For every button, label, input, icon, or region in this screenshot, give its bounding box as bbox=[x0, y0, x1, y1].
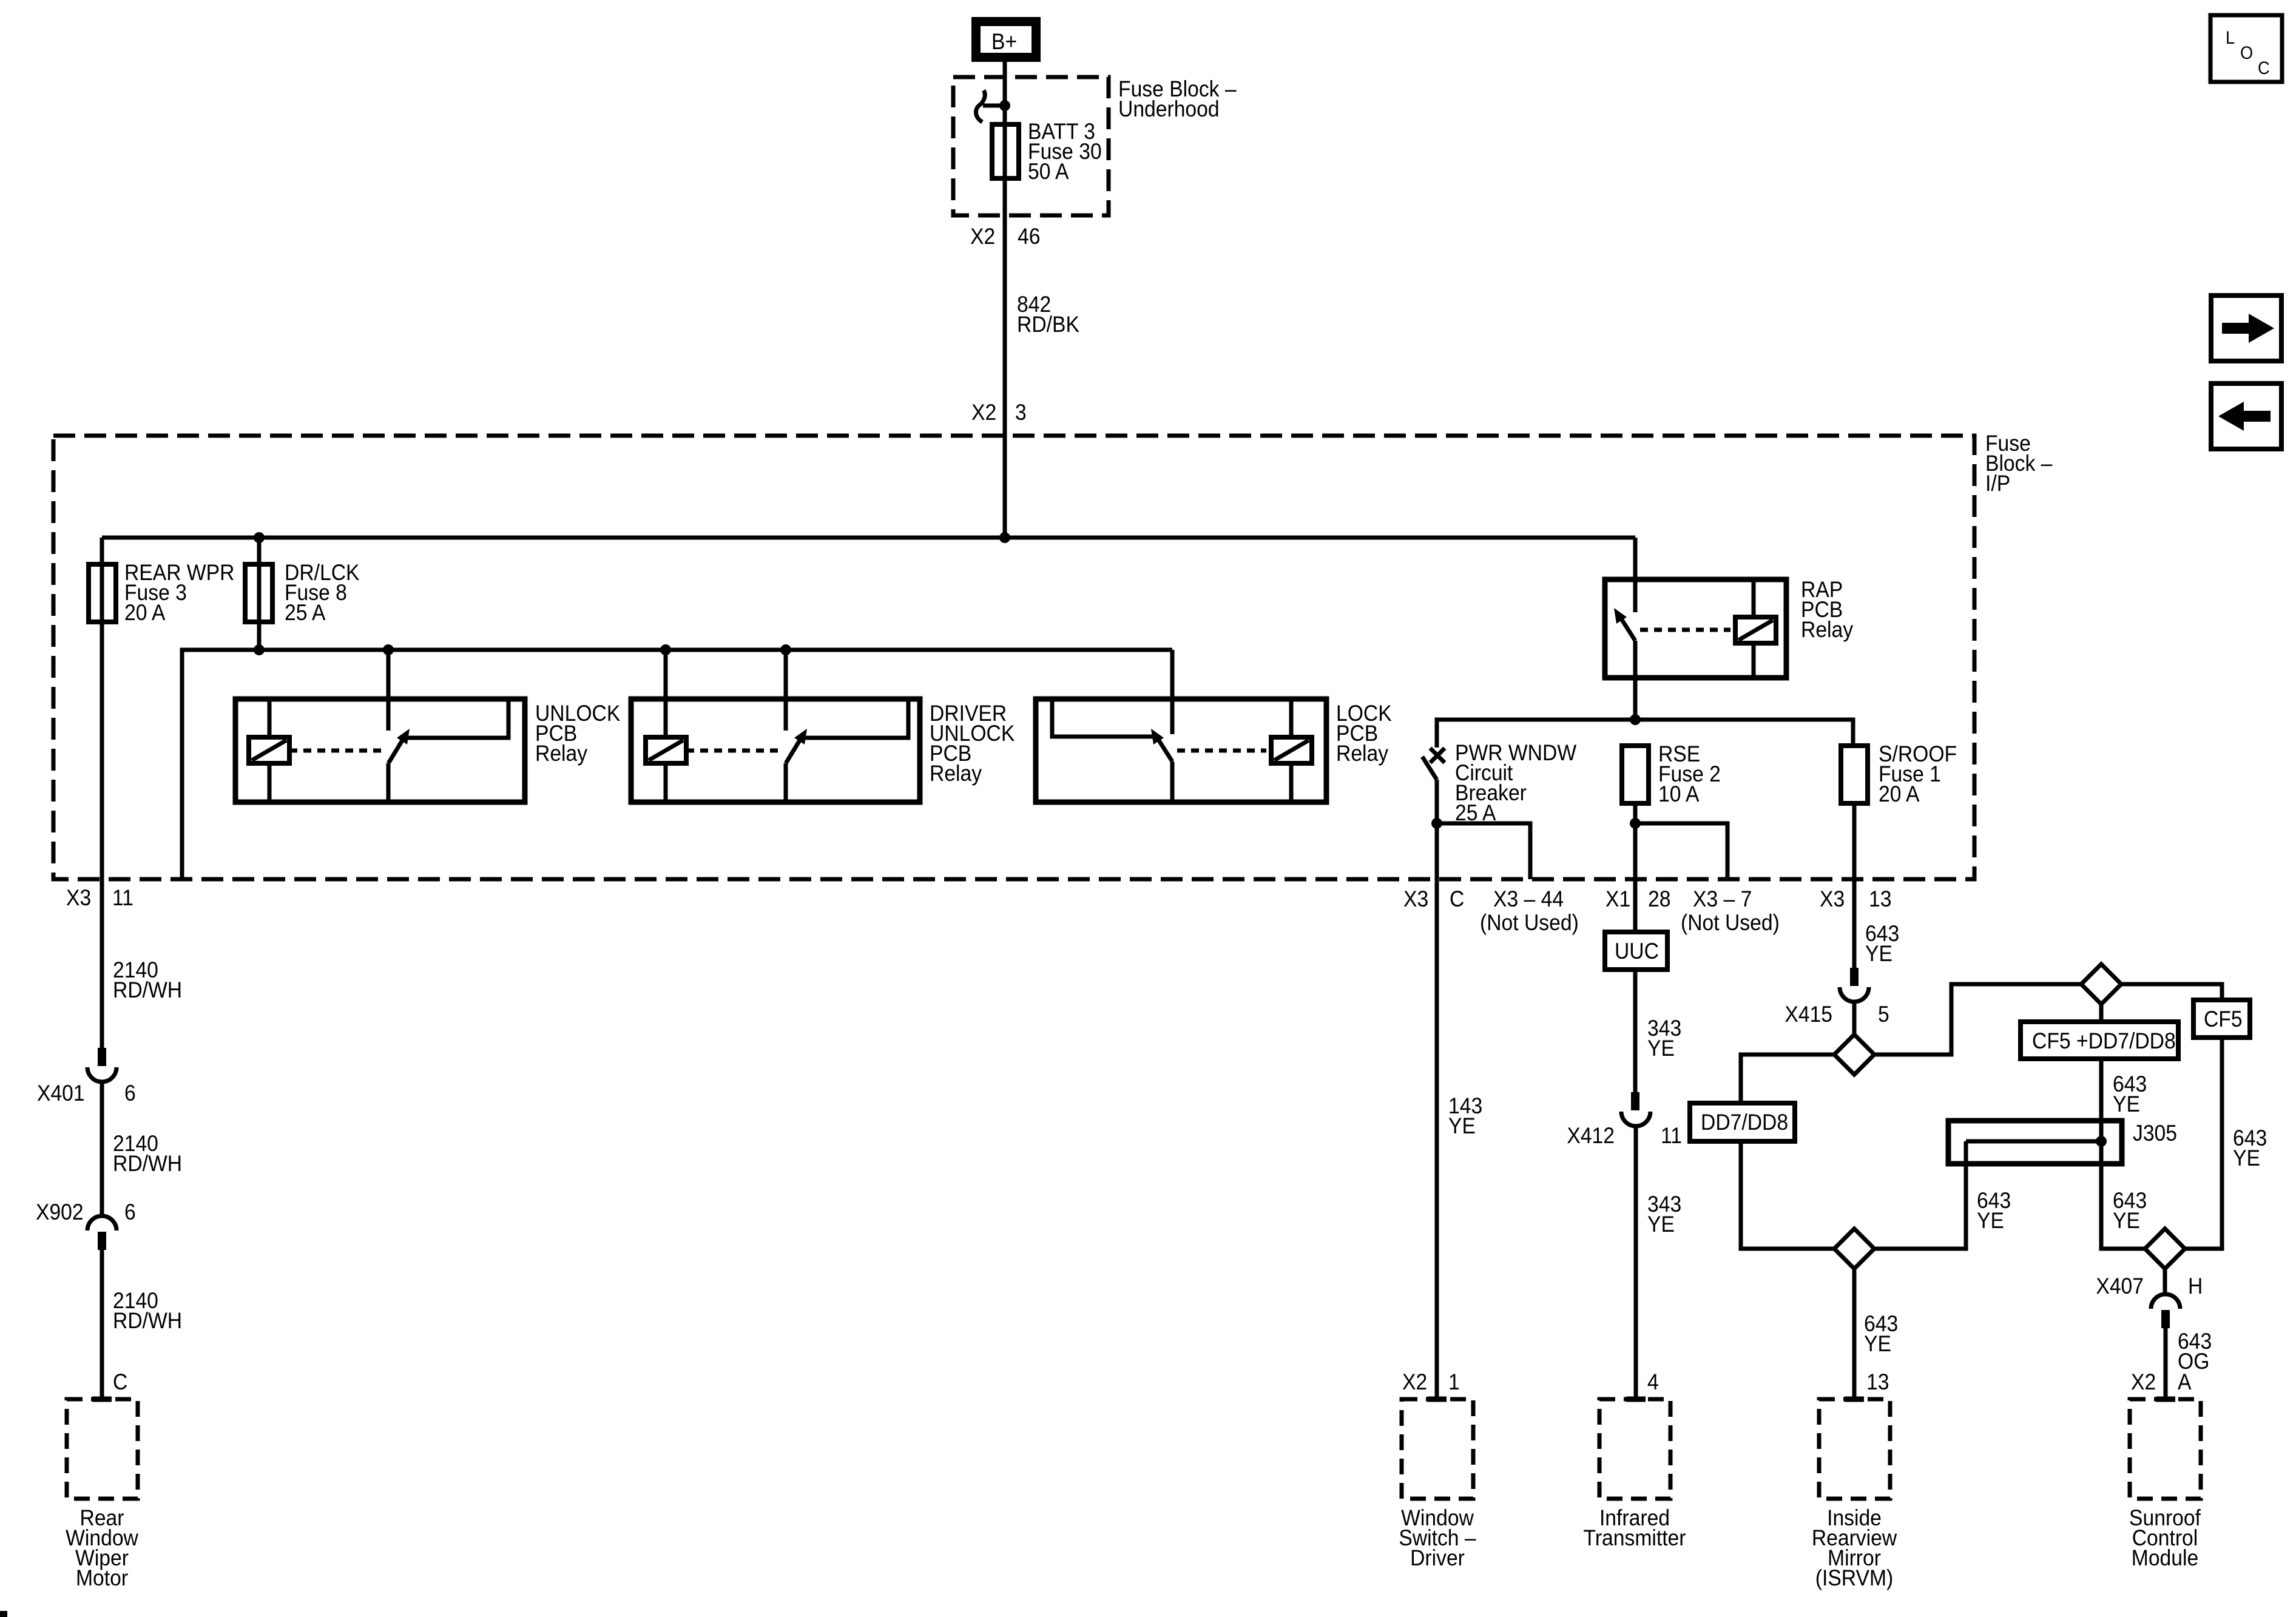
window switch driver dashed box bbox=[1399, 1399, 1476, 1570]
splice diamond D4 bbox=[2145, 1229, 2185, 1269]
wire: breaker output to window switch bbox=[1435, 823, 1439, 1399]
svg-text:Transmitter: Transmitter bbox=[1584, 1525, 1686, 1550]
svg-text:X415: X415 bbox=[1784, 1002, 1832, 1027]
svg-text:X3: X3 bbox=[1403, 886, 1428, 911]
wire: D3 down to CF5+DD7/DD8 bbox=[2099, 1004, 2104, 1022]
svg-text:20 A: 20 A bbox=[124, 600, 166, 625]
svg-text:1: 1 bbox=[1448, 1369, 1460, 1394]
svg-text:X3: X3 bbox=[66, 885, 91, 910]
fuse REAR WPR bbox=[89, 560, 234, 625]
splice diamond D1 bbox=[1834, 1035, 1874, 1075]
legend LOC box bbox=[2210, 15, 2282, 82]
wire: DR/LCK fuse drop to bus2 bbox=[257, 538, 262, 650]
svg-text:X2: X2 bbox=[971, 400, 996, 425]
svg-text:L: L bbox=[2226, 28, 2235, 48]
junction dot bus2 driver unlock switch bbox=[780, 644, 791, 655]
relay RAP PCB bbox=[1605, 577, 1854, 678]
wire stub X3-7 bbox=[1635, 823, 1727, 879]
rear window wiper motor dashed box bbox=[66, 1399, 138, 1590]
svg-text:C: C bbox=[2258, 58, 2270, 78]
splice diamond D3 bbox=[2081, 964, 2121, 1004]
svg-text:20 A: 20 A bbox=[1879, 781, 1920, 806]
wire: DD7/DD8 down to D2 bbox=[1741, 1141, 1834, 1249]
svg-text:YE: YE bbox=[1647, 1212, 1675, 1237]
svg-text:YE: YE bbox=[2113, 1208, 2140, 1233]
wire: D3 right to CF5 bbox=[2121, 984, 2222, 1000]
wire: CF5+DD7/DD8 down through J305 to D4 bbox=[2101, 1059, 2145, 1249]
svg-text:RD/WH: RD/WH bbox=[113, 977, 182, 1002]
connector label X3 11 bbox=[66, 885, 133, 910]
relay LOCK PCB bbox=[1036, 650, 1392, 802]
inline connector X407 bbox=[2096, 1274, 2203, 1399]
svg-text:10 A: 10 A bbox=[1658, 781, 1700, 806]
junction dot bus2 DR/LCK bbox=[254, 644, 265, 655]
wire: D1 left to DD7/DD8 bbox=[1741, 1055, 1834, 1103]
wire label 643 OG bbox=[2178, 1329, 2212, 1374]
svg-text:25 A: 25 A bbox=[285, 600, 326, 625]
page corner dot bbox=[0, 1611, 7, 1617]
svg-text:13: 13 bbox=[1869, 886, 1892, 911]
svg-text:YE: YE bbox=[1647, 1036, 1675, 1061]
wire: bus1 drop to RAP relay bbox=[1633, 538, 1638, 612]
svg-text:X2: X2 bbox=[970, 224, 995, 249]
CF5 box bbox=[2193, 1000, 2250, 1038]
relay UNLOCK PCB bbox=[235, 650, 621, 802]
fuse DR/LCK bbox=[245, 560, 360, 625]
wire label 2140 RD/WH (2) bbox=[113, 1131, 182, 1176]
svg-text:(ISRVM): (ISRVM) bbox=[1815, 1565, 1894, 1590]
svg-text:B+: B+ bbox=[991, 29, 1017, 54]
fuse block I/P dashed box bbox=[53, 436, 1974, 879]
svg-text:11: 11 bbox=[1661, 1123, 1682, 1148]
svg-text:RD/BK: RD/BK bbox=[1017, 312, 1079, 337]
inline connector X412 bbox=[1567, 1092, 1682, 1399]
legend left arrow box bbox=[2211, 383, 2281, 449]
svg-text:X2: X2 bbox=[1402, 1369, 1427, 1394]
svg-text:3: 3 bbox=[1015, 400, 1027, 425]
svg-text:C: C bbox=[1450, 886, 1464, 911]
svg-text:X2: X2 bbox=[2131, 1369, 2156, 1394]
wire: S/ROOF fuse down to X415 bbox=[1852, 803, 1857, 968]
legend right arrow box bbox=[2211, 295, 2281, 361]
connector label X2 46 bbox=[970, 224, 1041, 249]
inline connector X401 bbox=[37, 1048, 136, 1216]
inline connector X902 bbox=[36, 1200, 136, 1399]
wire label 643 YE (S/ROOF) bbox=[1865, 921, 1899, 966]
svg-text:Underhood: Underhood bbox=[1118, 96, 1220, 121]
svg-text:YE: YE bbox=[1977, 1208, 2004, 1233]
connector label X3 13 bbox=[1820, 886, 1892, 911]
wire: D2 down to ISRVM bbox=[1852, 1269, 1857, 1399]
wire label 2140 RD/WH (3) bbox=[113, 1288, 182, 1333]
fuse S/ROOF bbox=[1841, 741, 1957, 806]
svg-text:Module: Module bbox=[2132, 1545, 2198, 1570]
pin label X2 A bbox=[2131, 1369, 2192, 1394]
inline connector X415 bbox=[1784, 968, 1889, 1035]
svg-text:A: A bbox=[2178, 1369, 2192, 1394]
svg-text:UUC: UUC bbox=[1615, 939, 1659, 964]
bus wire 2 (relay feed bus) bbox=[182, 650, 1172, 879]
wire stub X3-44 bbox=[1437, 823, 1530, 879]
svg-text:4: 4 bbox=[1647, 1369, 1659, 1394]
CF5 +DD7/DD8 box bbox=[2021, 1022, 2178, 1059]
bus wire top (feeds fuses and RAP relay) bbox=[102, 536, 1635, 540]
wire label 343 YE (1) bbox=[1647, 1016, 1681, 1061]
junction dot breaker output bbox=[1431, 818, 1442, 829]
svg-text:X902: X902 bbox=[36, 1200, 84, 1224]
svg-text:5: 5 bbox=[1878, 1002, 1889, 1027]
svg-text:X3 – 44: X3 – 44 bbox=[1493, 886, 1564, 911]
label: Fuse Block - Underhood bbox=[1118, 76, 1237, 121]
svg-text:CF5: CF5 bbox=[2204, 1007, 2243, 1031]
svg-text:Motor: Motor bbox=[76, 1565, 128, 1590]
wire label 643 YE (J305 left leg) bbox=[1977, 1188, 2011, 1233]
wire label 842 RD/BK bbox=[1017, 292, 1079, 337]
svg-text:6: 6 bbox=[124, 1200, 136, 1224]
svg-text:Driver: Driver bbox=[1410, 1545, 1465, 1570]
connector label X3-44 not used bbox=[1480, 886, 1579, 935]
svg-text:Relay: Relay bbox=[930, 761, 982, 786]
junction J305 bbox=[1948, 1121, 2177, 1164]
wire label 143 YE bbox=[1448, 1093, 1482, 1138]
wire: B+ down through underhood fuse block to bus bbox=[1003, 58, 1007, 538]
svg-text:YE: YE bbox=[2233, 1146, 2260, 1170]
svg-text:YE: YE bbox=[1864, 1331, 1891, 1356]
svg-text:46: 46 bbox=[1018, 224, 1041, 249]
label: Fuse Block - I/P bbox=[1985, 431, 2053, 496]
svg-text:X401: X401 bbox=[37, 1081, 85, 1106]
svg-text:13: 13 bbox=[1866, 1369, 1889, 1394]
wire: RSE fuse down to UUC bbox=[1633, 803, 1638, 932]
svg-text:YE: YE bbox=[1448, 1113, 1476, 1138]
connector label X3 C bbox=[1403, 886, 1464, 911]
bus wire 3 (RAP output bus) bbox=[1437, 720, 1853, 748]
wire: UUC down to X412 bbox=[1633, 970, 1638, 1092]
wire: left drop to REAR WPR fuse and out of block bbox=[100, 538, 104, 1048]
junction dot bus3 bbox=[1630, 714, 1641, 725]
relay DRIVER UNLOCK PCB bbox=[631, 650, 1015, 802]
svg-text:I/P: I/P bbox=[1985, 471, 2010, 496]
svg-text:J305: J305 bbox=[2133, 1121, 2177, 1146]
junction dot bus2 unlock relay switch bbox=[383, 644, 394, 655]
fuse RSE bbox=[1622, 741, 1721, 806]
junction dot bus1 DR/LCK bbox=[254, 532, 265, 543]
wire: D2 right to J305 leg bbox=[1874, 1162, 1966, 1249]
svg-text:Relay: Relay bbox=[535, 741, 588, 766]
fuse block underhood dashed box bbox=[953, 77, 1109, 215]
svg-text:RD/WH: RD/WH bbox=[113, 1151, 182, 1176]
DD7/DD8 box bbox=[1690, 1103, 1795, 1141]
svg-text:(Not Used): (Not Used) bbox=[1480, 910, 1579, 935]
splice diamond D2 bbox=[1834, 1229, 1874, 1269]
wire: RAP relay output down to bus3 bbox=[1633, 675, 1638, 720]
svg-text:6: 6 bbox=[124, 1081, 136, 1106]
sunroof control module dashed box bbox=[2129, 1399, 2201, 1570]
wire label 2140 RD/WH (1) bbox=[113, 957, 182, 1002]
svg-text:Relay: Relay bbox=[1801, 617, 1854, 642]
svg-text:X3: X3 bbox=[1820, 886, 1845, 911]
svg-text:DD7/DD8: DD7/DD8 bbox=[1701, 1110, 1788, 1135]
connector label X2 3 bbox=[971, 400, 1027, 425]
wire label 643 YE (ISRVM) bbox=[1864, 1311, 1898, 1356]
wire label 343 YE (2) bbox=[1647, 1192, 1681, 1237]
infrared transmitter dashed box bbox=[1584, 1399, 1686, 1550]
svg-text:11: 11 bbox=[112, 885, 133, 910]
svg-text:X412: X412 bbox=[1567, 1123, 1615, 1148]
svg-text:X1: X1 bbox=[1606, 886, 1630, 911]
wire label 643 YE (below J305) bbox=[2113, 1188, 2147, 1233]
svg-text:50 A: 50 A bbox=[1028, 159, 1069, 184]
junction dot bus1 main feed bbox=[999, 532, 1010, 543]
svg-text:(Not Used): (Not Used) bbox=[1681, 910, 1780, 935]
inside rearview mirror dashed box bbox=[1812, 1399, 1897, 1590]
UUC box bbox=[1605, 932, 1667, 970]
connector label X3-7 not used bbox=[1681, 886, 1780, 935]
svg-text:RD/WH: RD/WH bbox=[113, 1308, 182, 1333]
fuse BATT 3 bbox=[992, 119, 1102, 184]
svg-text:28: 28 bbox=[1648, 886, 1671, 911]
connector label X1 28 bbox=[1606, 886, 1671, 911]
wire: CF5 down to D4 bbox=[2185, 1038, 2222, 1249]
svg-text:YE: YE bbox=[2113, 1092, 2140, 1116]
wire label 643 YE (below CF5+DD7/DD8) bbox=[2113, 1072, 2147, 1116]
svg-text:C: C bbox=[113, 1369, 127, 1394]
junction dot bbox=[999, 100, 1010, 111]
svg-text:CF5 +DD7/DD8: CF5 +DD7/DD8 bbox=[2032, 1028, 2176, 1053]
junction dot bus2 driver unlock coil bbox=[660, 644, 671, 655]
circuit breaker PWR WNDW bbox=[1422, 740, 1576, 825]
svg-text:Relay: Relay bbox=[1336, 741, 1389, 766]
wire: D1 right up to D3 bbox=[1874, 984, 2081, 1055]
power symbol B+ bbox=[976, 22, 1036, 58]
pin label X2 1 bbox=[1402, 1369, 1460, 1394]
svg-text:YE: YE bbox=[1865, 941, 1893, 966]
wire: D4 down to X407 bbox=[2163, 1269, 2167, 1295]
junction dot RSE output bbox=[1630, 818, 1641, 829]
wire label 643 YE (CF5 branch) bbox=[2233, 1126, 2267, 1170]
svg-text:X3 – 7: X3 – 7 bbox=[1693, 886, 1752, 911]
svg-text:H: H bbox=[2188, 1274, 2203, 1298]
svg-text:X407: X407 bbox=[2096, 1274, 2144, 1298]
svg-text:O: O bbox=[2240, 43, 2253, 63]
hook contact symbol bbox=[976, 90, 1005, 122]
